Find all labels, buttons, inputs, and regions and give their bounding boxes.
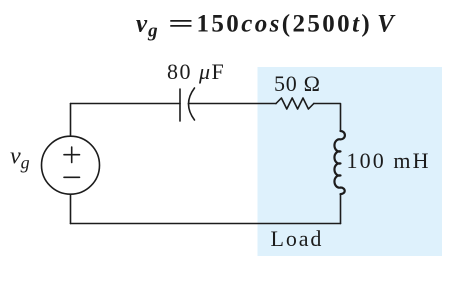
svg-text:vg: vg xyxy=(10,144,30,173)
svg-text:80 μF: 80 μF xyxy=(167,59,225,84)
wire bottom: bottom-right corner to bottom-left corner xyxy=(71,223,341,225)
title equation vg = 150cos(2500t) V xyxy=(136,11,396,42)
inductor 100 mH xyxy=(334,131,344,194)
resistor 50 ohm xyxy=(276,98,314,109)
wire top: source top corner to capacitor left plate xyxy=(71,103,181,105)
svg-text:50 Ω: 50 Ω xyxy=(274,71,321,96)
svg-text:100 mH: 100 mH xyxy=(347,148,431,173)
wire top: capacitor right plate to resistor xyxy=(189,103,277,105)
svg-text:Load: Load xyxy=(271,226,324,251)
wire left: source top up to top-left corner xyxy=(70,104,72,137)
svg-text:vg: vg xyxy=(136,11,159,42)
svg-text:=: = xyxy=(168,11,194,38)
capacitor 80 uF xyxy=(180,88,195,121)
voltage source vg xyxy=(42,136,100,194)
load shaded region xyxy=(258,67,443,256)
wire top-right: resistor to corner and down to inductor top xyxy=(314,104,341,132)
svg-text:150cos(2500t)V: 150cos(2500t)V xyxy=(197,11,397,38)
wire left: bottom-left corner up to source bottom xyxy=(70,194,72,223)
wire right: inductor bottom down to bottom-right corner xyxy=(340,194,342,224)
